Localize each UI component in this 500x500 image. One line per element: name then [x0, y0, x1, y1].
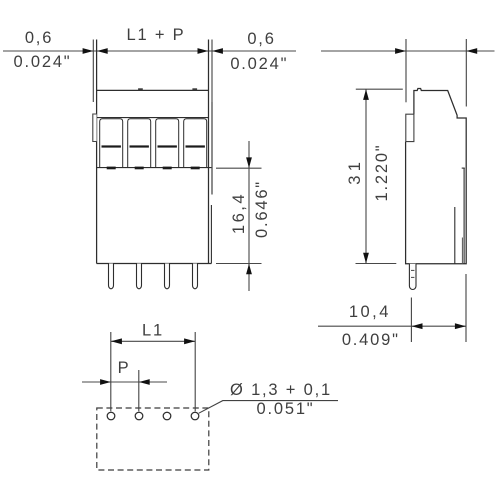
side view right extension line: [465, 39, 467, 107]
svg-text:16,4: 16,4: [230, 192, 248, 234]
arrow 0,6-left outer: [83, 48, 94, 54]
10,4 right extension: [465, 274, 467, 342]
arrow 10,4 left: [412, 323, 423, 329]
svg-text:L1 + P: L1 + P: [127, 26, 186, 44]
dimension 16,4 vertical line: [248, 141, 250, 291]
svg-text:1.220": 1.220": [373, 144, 391, 202]
svg-text:0.024": 0.024": [14, 53, 72, 71]
front view bottom edge: [97, 263, 212, 265]
dimension 16,4 bottom tick: [216, 263, 262, 265]
terminal cell 4: [184, 119, 207, 170]
front view body right edge: [208, 40, 210, 264]
front view mold mark 2: [192, 88, 197, 90]
front pin 4: [193, 264, 198, 289]
side view inner line b: [454, 207, 456, 264]
10,4 left extension: [410, 298, 412, 343]
svg-text:0.024": 0.024": [230, 55, 288, 73]
front view right outer lower edge: [210, 205, 212, 264]
dimension 16,4 top tick: [216, 167, 262, 169]
side view left extension line: [405, 39, 407, 102]
side pin serration 1: [411, 269, 414, 271]
svg-text:0.646": 0.646": [253, 180, 271, 238]
svg-text:0,6: 0,6: [25, 29, 53, 47]
arrow 16,4 bottom: [246, 264, 252, 275]
svg-text:0.051": 0.051": [257, 400, 315, 418]
arrow P right: [139, 379, 150, 385]
svg-text:L1: L1: [142, 322, 164, 340]
arrow 0,6-right outer: [212, 48, 223, 54]
arrow side top left: [395, 48, 406, 54]
hole 4: [191, 412, 199, 420]
front view right outer mid edge: [211, 102, 213, 195]
arrow 31 top: [363, 89, 369, 100]
side view pin: [409, 264, 416, 290]
leader line to hole 4: [199, 401, 338, 414]
side view inner line a: [463, 168, 465, 264]
arrow L1 right: [184, 338, 195, 344]
L1 left extension: [110, 332, 112, 411]
front view mold mark 1: [138, 88, 143, 90]
front view terminal top line: [97, 117, 209, 119]
dimension 31 top tick: [356, 88, 403, 90]
svg-text:Ø 1,3 + 0,1: Ø 1,3 + 0,1: [230, 381, 332, 399]
P extension line: [138, 370, 140, 411]
side view latch: [406, 114, 414, 141]
front pin 2: [137, 264, 142, 289]
extension line left outer: [92, 40, 94, 103]
dimension line top-left (shared 0,6 / L1+P / 0,6): [3, 50, 296, 52]
dimension 31 vertical line: [365, 89, 367, 263]
arrow L1 left: [111, 338, 122, 344]
arrow 10,4 right: [455, 323, 466, 329]
front view top edge: [97, 89, 209, 91]
hole 3: [163, 412, 171, 420]
P dimension line: [82, 381, 167, 383]
L1 right extension: [194, 332, 196, 411]
front pin 3: [165, 264, 170, 289]
front view body left edge: [96, 40, 98, 264]
svg-text:31: 31: [346, 158, 364, 185]
terminal cell 3: [156, 119, 179, 170]
front view terminal bottom line: [97, 167, 212, 169]
side view top dimension line: [321, 50, 495, 52]
svg-text:0,6: 0,6: [247, 30, 275, 48]
dimension 10,4 line: [318, 325, 466, 327]
hole 1: [107, 412, 115, 420]
svg-text:0.409": 0.409": [342, 331, 400, 349]
arrow side top right: [466, 48, 477, 54]
arrow P left: [100, 379, 111, 385]
front view left flange: [93, 114, 97, 142]
terminal cell 1: [100, 119, 123, 170]
svg-text:P: P: [118, 359, 131, 377]
side view inner line c: [461, 238, 463, 264]
arrow 31 bottom: [363, 253, 369, 264]
svg-text:10,4: 10,4: [349, 303, 391, 321]
terminal cell 2: [128, 119, 151, 170]
arrow L1+P left (shared 0,6 inner): [97, 48, 108, 54]
arrow 16,4 top: [246, 157, 252, 168]
footprint dashed outline: [97, 408, 209, 470]
side view outline: [406, 89, 467, 264]
dimension 31 bottom tick: [356, 263, 397, 265]
extension line right outer upper: [211, 40, 213, 103]
hole 2: [135, 412, 143, 420]
front pin 1: [109, 264, 114, 289]
arrow L1+P right (shared 0,6 inner): [198, 48, 209, 54]
side pin serration 2: [411, 276, 414, 278]
L1 dimension line: [111, 340, 195, 342]
